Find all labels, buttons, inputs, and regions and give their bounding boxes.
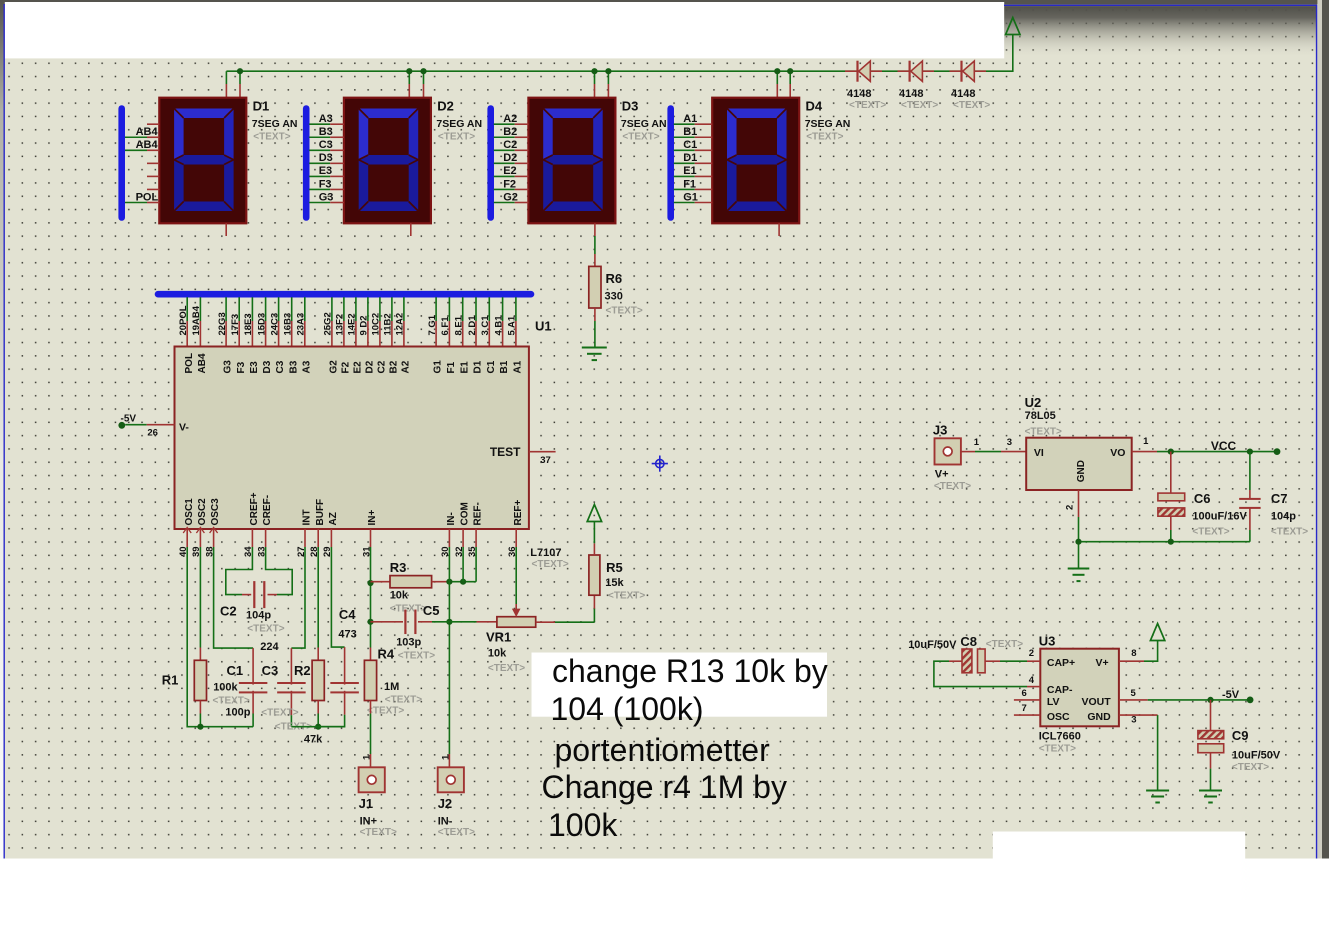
svg-text:F3: F3 [319,178,332,190]
svg-text:5 A1: 5 A1 [507,315,518,335]
svg-text:2: 2 [1029,648,1034,659]
wire BUFF to R2 [317,547,319,648]
svg-text:V-: V- [179,422,189,434]
svg-text:<TEXT>: <TEXT> [901,100,938,111]
svg-text:F1: F1 [683,178,696,190]
blue bus bar left of D1 [118,109,125,218]
svg-text:4148: 4148 [951,88,975,100]
svg-text:C3: C3 [262,663,279,678]
svg-text:7SEG AN: 7SEG AN [621,118,667,130]
svg-text:V+: V+ [935,469,949,481]
wire INT to C3 [291,547,305,648]
svg-text:BUFF: BUFF [315,499,326,526]
wire IN+ down [370,547,372,648]
svg-text:104p: 104p [1271,510,1296,522]
svg-text:VR1: VR1 [486,630,511,645]
junction dot COM R3 [460,579,466,585]
svg-text:U1: U1 [535,319,552,334]
svg-text:LV: LV [1047,696,1060,708]
svg-text:1: 1 [362,754,373,760]
svg-text:16B3: 16B3 [283,313,294,336]
resistor R6 [589,266,601,308]
capacitor C2 plates [253,581,255,608]
svg-text:OSC1: OSC1 [184,498,195,526]
svg-text:104 (100k): 104 (100k) [551,691,704,727]
svg-text:-5V: -5V [1222,689,1240,701]
bottom white margin [0,859,1329,925]
svg-text:<TEXT>: <TEXT> [606,306,643,317]
svg-text:<TEXT>: <TEXT> [622,131,659,142]
svg-text:<TEXT>: <TEXT> [360,827,397,838]
resistor R4 [364,648,376,768]
svg-text:C7: C7 [1271,491,1288,506]
svg-text:C2: C2 [503,139,517,151]
terminal dot -5V right [1247,697,1254,704]
digit 8 of D2 [359,109,419,212]
wire OSC2 to R1 [199,547,201,648]
right window dark edge [1322,0,1329,859]
labels U1 inside top pin names [184,353,524,374]
svg-text:IN+: IN+ [360,816,377,828]
svg-text:<TEXT>: <TEXT> [608,591,645,602]
junction dot IN- R3 [446,579,452,585]
junction dot C7 top [1247,449,1253,455]
ground under U3 [1146,790,1169,792]
svg-text:<TEXT>: <TEXT> [1039,743,1076,754]
capacitor C8 electrolytic [934,649,1040,687]
wire C5 to VR1 [449,621,497,623]
svg-text:C2: C2 [220,604,237,619]
svg-text:E1: E1 [459,361,470,374]
svg-text:D1: D1 [253,99,270,114]
capacitor C4 [318,647,359,727]
svg-text:B2: B2 [503,126,517,138]
svg-text:REF-: REF- [473,502,484,525]
svg-text:V+: V+ [1096,657,1109,669]
svg-text:14E2: 14E2 [347,313,358,335]
svg-text:VO: VO [1110,447,1125,459]
potentiometer VR1 body [497,617,536,628]
svg-text:A2: A2 [503,113,517,125]
svg-text:24C3: 24C3 [269,313,280,336]
capacitor C9 electrolytic [1198,700,1224,791]
svg-text:A3: A3 [319,113,333,125]
wire J3 to U2 [961,451,1026,453]
wires bus to U1 top pins [187,297,516,346]
svg-text:GND: GND [1087,711,1111,723]
svg-text:OSC2: OSC2 [197,498,208,526]
svg-text:C3: C3 [275,360,286,373]
svg-text:25G2: 25G2 [323,312,334,335]
svg-text:VCC: VCC [1211,439,1237,453]
svg-text:POL: POL [184,353,195,374]
wire anode stubs D3 [595,71,609,98]
white margin strip top-left [5,2,1004,58]
svg-text:F2: F2 [341,361,352,373]
junction dot C9 top [1207,697,1213,703]
junction dot R1 bottom [197,724,203,730]
svg-text:15D3: 15D3 [256,313,267,336]
wire U3 VOUT to -5V [1119,699,1250,701]
svg-text:1: 1 [441,754,452,760]
svg-text:G3: G3 [319,191,334,203]
annotation text change R13 [542,653,828,843]
svg-text:POL: POL [136,192,159,204]
svg-text:17F3: 17F3 [230,314,241,336]
U1 bottom pin stubs [187,529,516,547]
ground under C9 [1199,790,1222,792]
svg-text:A1: A1 [683,113,697,125]
svg-text:37: 37 [540,455,551,466]
blue bus bar left of D4 [667,109,674,218]
wire VR1 right to R5 [536,595,595,622]
junction dot C6 top [1168,449,1174,455]
svg-text:47k: 47k [304,734,323,746]
svg-text:AB4: AB4 [136,126,159,138]
svg-text:C9: C9 [1232,728,1249,743]
left window edge gradient [0,0,5,925]
svg-text:OSC: OSC [1047,711,1070,723]
svg-text:VI: VI [1034,447,1044,459]
bottom-middle white rectangle [993,832,1245,860]
top sheet border blue line [1004,4,1317,6]
VR1 wiper arrow [512,604,521,617]
capacitor C6 electrolytic [1158,452,1185,542]
junction dot R2 bottom [315,724,321,730]
svg-text:<TEXT>: <TEXT> [247,624,284,635]
connector J2 [438,767,464,792]
svg-text:C8: C8 [960,634,977,649]
svg-text:D1: D1 [683,152,697,164]
svg-text:<TEXT>: <TEXT> [532,559,569,570]
svg-text:C4: C4 [339,607,356,622]
svg-text:TEST: TEST [490,445,521,459]
labels segment nets D2 [319,113,334,203]
svg-text:23A3: 23A3 [296,313,307,336]
origin marker crosshair [652,456,668,472]
svg-text:7SEG AN: 7SEG AN [436,118,482,130]
svg-text:GND: GND [1076,460,1087,482]
label 4148 diode values [847,88,975,100]
svg-text:100k: 100k [213,682,238,694]
left sheet border blue line [3,4,5,911]
svg-text:G2: G2 [329,360,340,374]
svg-text:B1: B1 [499,360,510,373]
svg-text:<TEXT>: <TEXT> [261,708,298,719]
white annotation backdrop [532,653,828,717]
labels U1 top pin numbers and nets [178,305,518,335]
svg-text:C1: C1 [683,139,697,151]
svg-text:473: 473 [338,629,356,641]
power terminal above U3 [1150,624,1164,641]
svg-text:<TEXT>: <TEXT> [438,827,475,838]
svg-text:78L05: 78L05 [1025,410,1056,422]
wire IN- down to J2 [448,547,450,767]
wire segments at diodes [845,70,986,72]
wire R3 to REF- pin [449,547,476,582]
wire anode stubs D1 [226,71,240,98]
capacitor C2 wires [226,547,292,595]
svg-text:VOUT: VOUT [1082,696,1112,708]
svg-text:D3: D3 [622,99,639,114]
blue bus bar left of D3 [487,109,494,218]
svg-text:26: 26 [147,428,158,439]
svg-text:IN+: IN+ [367,510,378,526]
labels U1 inside bottom pin names [184,492,524,525]
svg-text:<TEXT>: <TEXT> [1192,527,1229,538]
pin LV stub [1014,699,1040,701]
svg-text:CAP-: CAP- [1047,684,1073,696]
junction dot IN+ R3 [367,580,373,586]
terminal dot VCC right [1274,448,1281,455]
svg-text:R5: R5 [606,560,623,575]
svg-text:<TEXT>: <TEXT> [385,695,422,706]
wire OSC1 down to rail [187,547,253,727]
svg-text:3: 3 [1131,714,1136,725]
svg-text:G1: G1 [433,360,444,374]
svg-text:B1: B1 [683,126,697,138]
bottom cathode stub D4 [778,223,780,236]
power terminal above R5 [587,505,601,522]
svg-text:E2: E2 [353,361,364,374]
svg-text:<TEXT>: <TEXT> [806,131,843,142]
ground under R6 [582,347,607,349]
capacitor C1 [239,648,268,727]
bottom cathode stub D2 [410,223,412,236]
diode D6 1N4148 [910,61,923,82]
svg-text:CAP+: CAP+ [1047,657,1075,669]
svg-text:104p: 104p [246,610,271,622]
ground under U2 [1068,568,1090,570]
terminal -5V left [118,422,125,429]
connector J1 [359,767,385,792]
svg-text:<TEXT>: <TEXT> [1232,762,1269,773]
svg-text:12A2: 12A2 [395,313,406,336]
svg-text:10C2: 10C2 [371,313,382,336]
OSC pin clock chevrons [183,528,217,534]
svg-text:R6: R6 [606,271,623,286]
svg-text:5: 5 [1131,688,1137,699]
svg-text:<TEXT>: <TEXT> [953,100,990,111]
junction dot IN- C5 row [446,619,452,625]
svg-text:18E3: 18E3 [243,313,254,335]
svg-text:ICL7660: ICL7660 [1039,731,1081,743]
digit 8 of D1 [174,109,234,212]
svg-text:<TEXT>: <TEXT> [1271,527,1308,538]
svg-text:10k: 10k [390,590,409,602]
svg-text:7SEG AN: 7SEG AN [805,118,851,130]
wire U2 GND down [1078,490,1080,568]
svg-text:AB4: AB4 [136,139,159,151]
resistor R5 [589,555,600,595]
svg-text:G2: G2 [503,191,518,203]
svg-text:<TEXT>: <TEXT> [253,131,290,142]
digit 8 of D3 [543,109,603,212]
wire anode stubs D4 [777,71,790,98]
svg-text:J2: J2 [438,796,452,811]
svg-text:<TEXT>: <TEXT> [986,639,1023,650]
svg-text:19AB4: 19AB4 [191,305,202,335]
svg-text:224: 224 [260,641,279,653]
7-segment display D3 body [528,98,615,224]
svg-text:C3: C3 [319,139,333,151]
svg-text:C2: C2 [377,360,388,373]
svg-text:B3: B3 [319,126,333,138]
svg-text:E3: E3 [249,361,260,374]
svg-text:6 F1: 6 F1 [440,316,451,336]
digit 8 of D4 [727,109,787,212]
pin 26 V- wire [125,424,174,426]
ground rail under U2 [1079,541,1250,543]
svg-text:100p: 100p [225,707,250,719]
svg-text:-5V: -5V [121,414,137,425]
capacitor C3 [277,648,306,727]
svg-text:20POL: 20POL [178,305,189,335]
svg-text:D3: D3 [262,360,273,373]
svg-text:2 D1: 2 D1 [467,315,478,336]
svg-text:F2: F2 [503,178,516,190]
junction dot IN+ C5 [367,619,373,625]
diode D5 1N4148 [858,61,871,82]
wires display D1 left pins [125,124,159,202]
capacitor C5 [371,610,450,635]
svg-text:R4: R4 [378,647,395,662]
svg-text:A2: A2 [401,360,412,373]
svg-text:3: 3 [1007,437,1012,448]
wire OSC3 to C1 [214,547,254,648]
wires display D2 left pins [309,124,344,202]
blue bus bar left of D2 [303,109,310,218]
wire U2 VO to VCC rail [1132,451,1277,453]
svg-text:1: 1 [1143,436,1149,447]
svg-text:J3: J3 [933,423,947,438]
svg-text:U2: U2 [1025,395,1042,410]
svg-text:INT: INT [302,509,313,525]
svg-text:R1: R1 [162,673,179,688]
svg-text:IN-: IN- [438,816,453,828]
svg-text:D1: D1 [473,360,484,373]
wire anode stubs D2 [409,71,423,98]
svg-text:8 E1: 8 E1 [454,315,465,335]
svg-text:A1: A1 [513,360,524,373]
svg-text:U3: U3 [1039,634,1056,649]
svg-text:7: 7 [1022,703,1027,714]
svg-text:portentiometter: portentiometter [555,732,771,768]
wire REF+ to VR1 wiper [515,547,517,604]
rail C3 to C4 bottom [291,726,344,728]
labels segment nets D4 [683,113,698,203]
top-right shadow gradient [1004,6,1316,58]
svg-text:1: 1 [974,437,980,448]
wire AZ to C4 [331,547,344,647]
svg-text:D3: D3 [319,152,333,164]
wire R6 to ground [594,308,596,348]
wires display D3 left pins [494,124,529,202]
top window bar [0,0,1329,5]
svg-text:C1: C1 [227,663,244,678]
wire R5 top to power arrow [593,522,595,556]
svg-text:10uF/50V: 10uF/50V [908,639,957,651]
capacitor C7 [1239,452,1261,542]
svg-text:13F2: 13F2 [335,314,346,336]
svg-text:C5: C5 [423,603,440,618]
svg-text:4: 4 [1029,675,1035,686]
wire anode rail [226,35,1012,72]
svg-text:10k: 10k [488,648,507,660]
resistor R2 [312,648,324,727]
svg-text:10uF/50V: 10uF/50V [1232,750,1281,762]
right sheet border blue line [1316,5,1318,859]
svg-text:7SEG AN: 7SEG AN [252,118,298,130]
svg-text:<TEXT>: <TEXT> [390,604,427,615]
svg-text:IN-: IN- [446,512,457,525]
svg-text:22G3: 22G3 [217,312,228,335]
wire U3 GND pin 3 down [1119,715,1158,790]
svg-text:D2: D2 [503,152,517,164]
wire COM down [462,547,464,582]
svg-text:C1: C1 [486,360,497,373]
svg-text:CREF-: CREF- [262,495,273,526]
svg-text:100k: 100k [548,807,618,843]
svg-text:L7107: L7107 [530,547,561,559]
svg-text:4148: 4148 [847,88,871,100]
svg-text:R2: R2 [294,663,311,678]
svg-text:100uF/16V: 100uF/16V [1192,510,1247,522]
connector J3 [935,438,961,464]
wire D3 cathode to R6 [594,236,596,266]
7-segment display D1 body [159,98,246,224]
svg-text:2: 2 [1065,505,1076,510]
svg-text:AZ: AZ [328,512,339,525]
svg-text:B3: B3 [288,360,299,373]
svg-text:<TEXT>: <TEXT> [213,696,250,707]
svg-text:<TEXT>: <TEXT> [934,481,971,492]
svg-text:9 D2: 9 D2 [359,315,370,335]
svg-text:COM: COM [460,502,471,525]
svg-text:<TEXT>: <TEXT> [1025,427,1062,438]
7-segment display D4 body [712,98,799,224]
svg-text:6: 6 [1022,688,1027,699]
svg-text:11B2: 11B2 [383,313,394,335]
7-segment display D2 body [344,98,431,224]
svg-text:F3: F3 [236,361,247,373]
IC U2 78L05 body [1026,438,1132,490]
power terminal top right [1006,18,1020,35]
svg-text:E1: E1 [683,165,696,177]
svg-text:<TEXT>: <TEXT> [438,131,475,142]
svg-text:change R13 10k by: change R13 10k by [552,653,828,689]
svg-text:R3: R3 [390,560,407,575]
resistor R1 [194,648,206,727]
svg-text:Change r4 1M by: Change r4 1M by [542,769,787,805]
svg-text:E3: E3 [319,165,332,177]
svg-text:A3: A3 [301,360,312,373]
svg-text:<TEXT>: <TEXT> [849,100,886,111]
svg-text:B2: B2 [389,360,400,373]
svg-text:3 C1: 3 C1 [480,315,491,336]
bottom cathode stub D1 [225,223,227,236]
svg-text:G1: G1 [683,191,698,203]
blue bus bar above U1 [158,291,531,298]
svg-text:8: 8 [1131,648,1136,659]
label diode TEXT placeholders [849,100,990,111]
pin 37 TEST wire [529,451,556,453]
svg-text:D4: D4 [806,99,823,114]
svg-text:D2: D2 [437,99,454,114]
svg-text:G3: G3 [223,360,234,374]
junction dot C6 bottom [1168,539,1174,545]
svg-text:7 G1: 7 G1 [427,314,438,335]
